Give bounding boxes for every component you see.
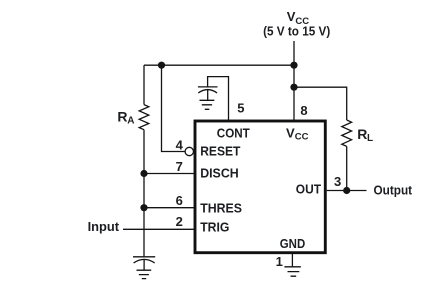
svg-text:2: 2 (176, 214, 183, 229)
capacitor C1 CONT (198, 87, 218, 100)
svg-text:DISCH: DISCH (200, 166, 239, 181)
svg-text:1: 1 (276, 254, 283, 269)
node junction OUT / RL (343, 187, 350, 194)
inverter bubble RESET pin 4 (185, 147, 193, 155)
svg-text:OUT: OUT (296, 181, 321, 196)
IC U1 TLC555 outline (195, 121, 325, 253)
wire RESET branch (162, 65, 186, 151)
wire TRIG pin 2 (Input) (123, 228, 194, 230)
label RL (357, 126, 373, 144)
svg-text:A: A (127, 116, 134, 127)
svg-text:8: 8 (300, 103, 307, 118)
wire THRES pin 6 (144, 207, 194, 209)
wire VCC supply drop (293, 41, 295, 121)
wire CONT cap top (208, 77, 229, 120)
wire RA top lead (143, 65, 145, 104)
wire RL bottom lead (346, 146, 348, 190)
svg-text:L: L (367, 133, 373, 144)
wire GND pin 1 (291, 254, 293, 267)
label RA (117, 108, 134, 126)
svg-text:6: 6 (176, 193, 183, 208)
node junction VCC / RL branch (290, 84, 297, 91)
wire RA bottom lead / left bus (143, 130, 145, 257)
capacitor C2 timing (133, 257, 155, 270)
svg-text:5: 5 (237, 101, 244, 116)
node junction THRES (140, 204, 147, 211)
node junction top-left (RESET tap) (158, 62, 165, 69)
wire top rail (144, 64, 294, 66)
svg-text:CC: CC (295, 131, 309, 142)
node junction VCC / top rail (290, 62, 297, 69)
wire VCC to RL (294, 87, 347, 120)
svg-text:TRIG: TRIG (200, 220, 229, 235)
svg-text:RESET: RESET (200, 143, 240, 158)
ground CONT cap (200, 100, 215, 109)
svg-text:3: 3 (334, 174, 341, 189)
resistor RA (139, 105, 149, 130)
pin label VCC (pin 8) (286, 125, 309, 142)
svg-text:GND: GND (280, 236, 305, 251)
svg-text:4: 4 (176, 138, 184, 153)
wire OUT pin 3 (Output) (327, 190, 367, 192)
ground timing cap (137, 270, 152, 278)
svg-text:R: R (117, 108, 127, 124)
svg-text:7: 7 (176, 159, 183, 174)
power label VCC (287, 9, 309, 27)
svg-text:CONT: CONT (217, 126, 250, 141)
svg-text:Input: Input (88, 219, 120, 234)
svg-text:Output: Output (374, 182, 413, 197)
wire DISCH pin 7 (144, 173, 194, 175)
svg-text:V: V (286, 125, 295, 140)
resistor RL (342, 120, 352, 146)
svg-text:(5 V to 15 V): (5 V to 15 V) (263, 23, 330, 38)
svg-text:R: R (357, 126, 367, 142)
node junction DISCH (140, 170, 147, 177)
ground GND pin (284, 267, 301, 276)
svg-text:THRES: THRES (200, 200, 242, 215)
